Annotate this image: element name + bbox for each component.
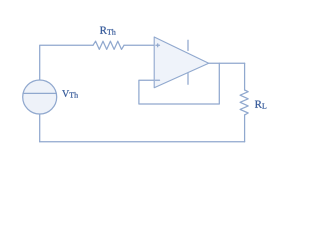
wire load branch bottom — [244, 115, 246, 142]
op-amp top power pin — [187, 40, 189, 50]
wire left vertical below source to bottom rail — [39, 114, 41, 142]
op-amp U1 — [154, 37, 209, 88]
wire feedback loop from output node to inverting input — [139, 63, 219, 104]
wire load branch top — [244, 63, 246, 90]
voltage source V_Th — [23, 80, 57, 114]
resistor R_Th — [93, 41, 124, 49]
wire op-amp output to load branch — [209, 62, 245, 64]
label R_Th — [100, 27, 116, 35]
op-amp bottom power pin — [187, 74, 189, 85]
op-amp - input marker — [156, 79, 160, 81]
voltage source internal line — [23, 92, 56, 94]
label R_L — [255, 101, 266, 109]
op-amp + input marker — [156, 44, 160, 47]
label V_Th — [62, 90, 78, 97]
wire bottom rail — [40, 141, 245, 143]
wire R_Th to op-amp + input — [124, 44, 154, 46]
resistor R_L — [240, 90, 248, 115]
wire top-left horizontal from source to R_Th — [40, 45, 93, 80]
